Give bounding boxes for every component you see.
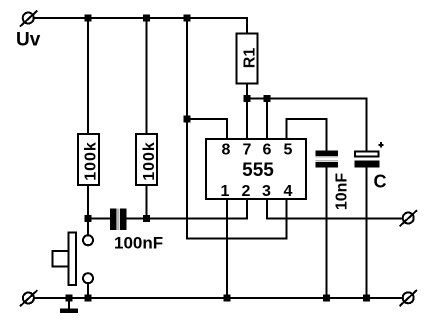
svg-text:C: C bbox=[374, 172, 387, 192]
node junction top rail at Vcc branch bbox=[184, 15, 191, 22]
wire ground stub bbox=[68, 298, 70, 309]
wire pins 7,6 node to capacitor C bbox=[247, 99, 367, 151]
terminal bottom left bbox=[20, 290, 37, 306]
node junction middle rail at right resistor bbox=[143, 215, 150, 222]
ground symbol bbox=[60, 309, 78, 314]
wire middle rail left of 100nF bbox=[88, 218, 110, 220]
wire left resistor bottom lead bbox=[87, 185, 89, 219]
resistor 100k right bbox=[136, 134, 158, 185]
capacitor 10nF bbox=[316, 151, 351, 211]
svg-text:8: 8 bbox=[222, 142, 231, 159]
wire 10nF bottom lead bbox=[326, 168, 328, 299]
svg-text:3: 3 bbox=[262, 183, 271, 200]
node junction pin 8 branch bbox=[184, 116, 191, 123]
svg-text:10nF: 10nF bbox=[334, 173, 351, 211]
node junction ground rail at pin 1 bbox=[224, 295, 231, 302]
wire 100nF to pin 2 bbox=[127, 199, 248, 219]
terminal Uv top left bbox=[20, 11, 37, 27]
resistor R1 bbox=[237, 34, 259, 84]
svg-text:555: 555 bbox=[242, 160, 274, 181]
svg-text:7: 7 bbox=[243, 142, 252, 159]
wire Vcc branch to pins 8 and 4 bbox=[187, 18, 287, 239]
node junction ground rail at C bbox=[363, 295, 370, 302]
push button S1 bbox=[53, 233, 94, 286]
svg-text:2: 2 bbox=[242, 183, 251, 200]
node junction ground rail at 10nF bbox=[323, 295, 330, 302]
svg-text:4: 4 bbox=[284, 183, 293, 200]
wire pin 3 to output terminal bbox=[267, 199, 403, 219]
wire R1 bottom to pin 7 bbox=[246, 84, 248, 140]
wire pin 8 lead bbox=[187, 119, 227, 139]
svg-text:100nF: 100nF bbox=[114, 234, 163, 253]
capacitor 100nF bbox=[110, 209, 163, 253]
wire right resistor bottom lead bbox=[146, 185, 148, 219]
wire C bottom lead bbox=[366, 168, 368, 299]
node junction R1 bottom / pin 7 bbox=[244, 95, 251, 102]
svg-text:100k: 100k bbox=[83, 141, 100, 181]
wire button top stub bbox=[87, 219, 89, 236]
svg-text:1: 1 bbox=[221, 183, 230, 200]
svg-text:R1: R1 bbox=[241, 48, 258, 69]
svg-text:100k: 100k bbox=[141, 141, 158, 181]
node junction top rail at right resistor bbox=[143, 15, 150, 22]
capacitor C electrolytic bbox=[355, 142, 387, 191]
svg-text:5: 5 bbox=[284, 142, 293, 159]
node junction pin 6 bbox=[264, 95, 271, 102]
node junction ground rail at ground symbol bbox=[66, 295, 73, 302]
wire left resistor top lead bbox=[87, 18, 89, 134]
wire pin 6 lead bbox=[266, 99, 268, 139]
resistor 100k left bbox=[78, 134, 100, 185]
wire button bottom stub bbox=[87, 283, 89, 298]
wire pin 1 to ground rail bbox=[226, 199, 228, 298]
wire right resistor top lead bbox=[146, 18, 148, 134]
terminal output right middle bbox=[400, 210, 417, 226]
svg-text:6: 6 bbox=[263, 142, 272, 159]
IC U1 555 timer bbox=[206, 139, 306, 200]
node junction middle rail left bbox=[85, 215, 92, 222]
wire top rail bbox=[34, 18, 247, 34]
node junction top rail at left resistor bbox=[85, 15, 92, 22]
wire pin 5 to 10nF bbox=[287, 119, 327, 151]
wire bottom ground rail bbox=[34, 297, 403, 299]
node junction ground rail at button bbox=[85, 295, 92, 302]
terminal bottom right bbox=[400, 290, 417, 306]
svg-text:Uv: Uv bbox=[16, 30, 41, 51]
